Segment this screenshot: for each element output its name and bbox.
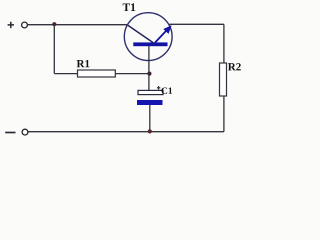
svg-text:C1: C1 <box>161 87 173 97</box>
svg-text:T1: T1 <box>122 2 136 14</box>
svg-text:R2: R2 <box>228 61 242 73</box>
svg-text:R1: R1 <box>76 58 89 70</box>
